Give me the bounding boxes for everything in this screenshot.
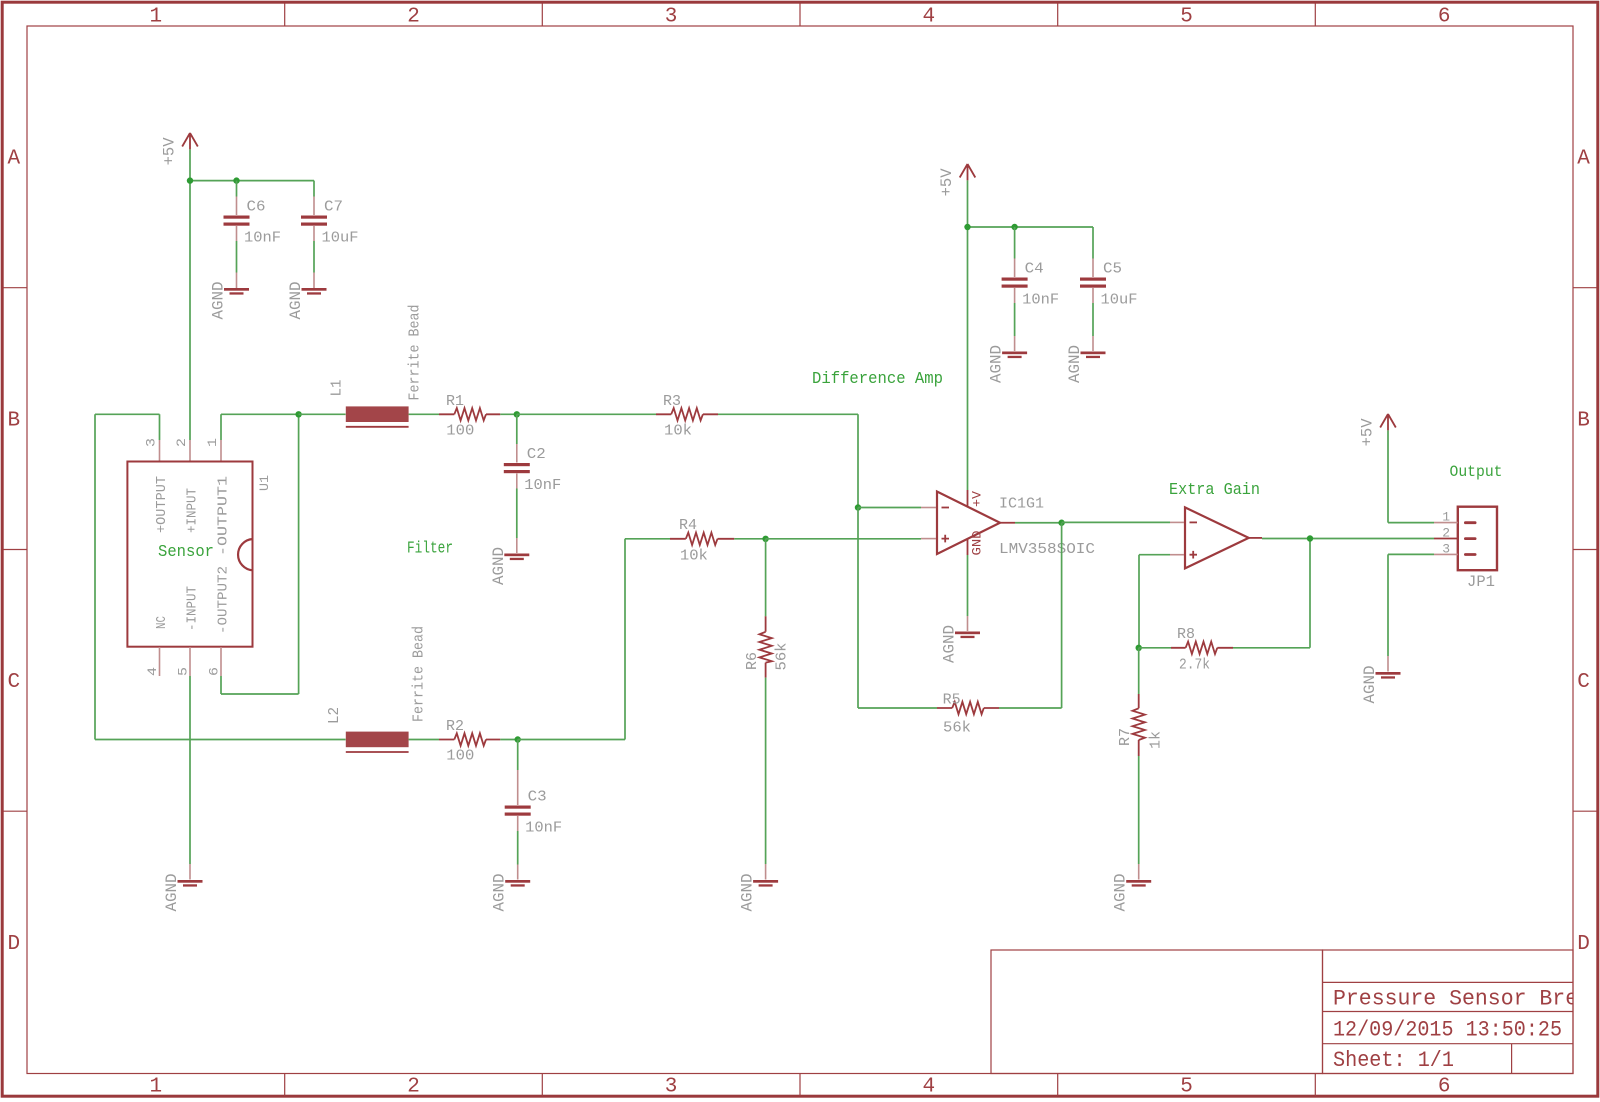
- svg-text:-OUTPUT1: -OUTPUT1: [216, 476, 232, 556]
- wire R3 to diff-amp minus (via corner): [718, 414, 858, 507]
- title block left box: [991, 950, 1323, 1074]
- junction dot gain output/feedback: [1307, 535, 1313, 541]
- svg-text:100: 100: [446, 423, 474, 440]
- svg-text:10uF: 10uF: [322, 230, 359, 247]
- sensor U1 body: [127, 462, 252, 647]
- pin 3 stub (JP1): [1434, 541, 1458, 556]
- svg-text:C2: C2: [527, 446, 546, 463]
- svg-text:+OUTPUT: +OUTPUT: [154, 476, 170, 533]
- svg-text:2: 2: [407, 1076, 420, 1099]
- svg-text:6: 6: [207, 667, 222, 676]
- junction dot top filter node: [295, 411, 301, 417]
- svg-text:LMV358SOIC: LMV358SOIC: [999, 541, 1095, 558]
- wire +5V to op-amp power rail: [968, 180, 1094, 490]
- svg-text:AGND: AGND: [163, 874, 181, 912]
- wire -OUTPUT1 (pin1) up to top filter row: [221, 414, 299, 440]
- pin 2 stub (+INPUT): [174, 438, 190, 461]
- svg-text:4: 4: [922, 1076, 935, 1099]
- svg-text:R8: R8: [1177, 626, 1195, 643]
- svg-text:3: 3: [144, 438, 159, 447]
- wire L1 to R1: [409, 413, 439, 415]
- frame row labels left A-D: [7, 148, 20, 956]
- wire gain amp output: [1262, 538, 1434, 540]
- supply +5V output: [1359, 414, 1396, 446]
- capacitor C4: [1002, 227, 1044, 351]
- ground AGND (JP1): [1361, 666, 1401, 704]
- junction dot +5V rail at C6: [233, 177, 239, 183]
- svg-text:C3: C3: [528, 789, 547, 806]
- wire node to L1: [299, 413, 346, 415]
- svg-text:R1: R1: [446, 393, 464, 410]
- wire R4 to plus node: [734, 538, 765, 540]
- svg-text:C: C: [7, 671, 20, 694]
- wire L2 to R2: [409, 739, 439, 741]
- wire R7 to ground: [1138, 756, 1140, 880]
- svg-text:+INPUT: +INPUT: [185, 488, 201, 533]
- svg-text:D: D: [7, 933, 20, 956]
- wire JP1 pin3 to ground: [1388, 554, 1434, 671]
- junction dot +5V rail at x190: [187, 177, 193, 183]
- ground AGND (R7): [1112, 874, 1152, 912]
- svg-text:R5: R5: [943, 691, 961, 708]
- svg-text:R6: R6: [744, 652, 761, 670]
- svg-text:1: 1: [205, 438, 220, 447]
- svg-text:Sensor: Sensor: [158, 543, 214, 562]
- junction dot minus input tap: [855, 504, 861, 510]
- svg-text:AGND: AGND: [491, 874, 509, 912]
- capacitor C2: [504, 414, 546, 553]
- ground AGND (C2): [490, 547, 530, 585]
- svg-text:5: 5: [1180, 6, 1193, 29]
- svg-text:10nF: 10nF: [525, 820, 562, 837]
- svg-text:R3: R3: [663, 393, 681, 410]
- wire op-amp GND pin to ground: [967, 555, 969, 616]
- svg-text:U1: U1: [257, 475, 272, 491]
- svg-text:4: 4: [145, 667, 160, 676]
- svg-text:D: D: [1577, 933, 1590, 956]
- wire R6 to ground: [765, 678, 767, 880]
- svg-text:C4: C4: [1025, 261, 1044, 278]
- frame row ticks right: [1573, 288, 1597, 812]
- capacitor C5: [1080, 227, 1122, 351]
- ground AGND (sensor pin5): [163, 874, 203, 912]
- svg-text:B: B: [1577, 409, 1590, 432]
- resistor R4: [670, 517, 734, 545]
- frame column ticks bottom: [285, 1074, 1316, 1097]
- junction dot R2/C3 node: [515, 736, 521, 742]
- svg-text:B: B: [7, 409, 20, 432]
- svg-text:12/09/2015 13:50:25: 12/09/2015 13:50:25: [1333, 1018, 1562, 1043]
- wire node to R4 riser: [518, 539, 670, 740]
- svg-text:A: A: [7, 148, 20, 171]
- svg-text:Ferrite Bead: Ferrite Bead: [407, 305, 424, 401]
- wire node to R3: [517, 413, 656, 415]
- svg-text:AGND: AGND: [739, 874, 757, 912]
- svg-text:Output: Output: [1450, 463, 1503, 481]
- title block sheet text: [1333, 1048, 1454, 1073]
- title block date text: [1333, 1018, 1562, 1043]
- pin 5 stub (-INPUT): [176, 647, 191, 676]
- svg-text:Ferrite Bead: Ferrite Bead: [411, 626, 428, 722]
- junction dot diff-amp output: [1058, 520, 1064, 526]
- wire +OUTPUT (pin3) left route to lower filter row: [95, 414, 346, 739]
- svg-text:C: C: [1577, 671, 1590, 694]
- svg-text:2: 2: [1442, 526, 1450, 541]
- svg-text:100: 100: [446, 748, 474, 765]
- resistor R8: [1171, 626, 1233, 654]
- pin 4 stub (NC): [145, 647, 160, 676]
- svg-text:A: A: [1577, 148, 1590, 171]
- svg-text:6: 6: [1438, 1076, 1451, 1099]
- svg-text:+5V: +5V: [938, 168, 956, 197]
- svg-text:R2: R2: [446, 718, 464, 735]
- wire node to R8: [1139, 647, 1171, 649]
- wire R1 to node: [500, 413, 517, 415]
- wire plus node to op-amp: [766, 538, 921, 540]
- ground AGND (C7): [287, 282, 327, 320]
- ferrite bead L2: [326, 707, 409, 752]
- resistor R6 (vertical): [744, 539, 772, 678]
- frame row labels right A-D: [1577, 148, 1590, 956]
- svg-text:5: 5: [1180, 1076, 1193, 1099]
- svg-text:2: 2: [407, 6, 420, 29]
- capacitor C7: [301, 181, 343, 288]
- pin 1 stub (JP1): [1434, 510, 1458, 525]
- title block title text: [1333, 987, 1591, 1012]
- frame column labels bottom 1-6: [149, 1076, 1450, 1099]
- svg-text:AGND: AGND: [988, 345, 1006, 383]
- resistor R7 (vertical): [1117, 648, 1145, 756]
- wire sensor pin5 to ground: [189, 676, 191, 880]
- wire +5V rail to sensor pin 2: [190, 149, 314, 440]
- ground AGND (op-amp): [941, 616, 981, 663]
- pin 6 stub (-OUTPUT2): [207, 647, 222, 676]
- junction dot R1/C2/R3 node: [514, 411, 520, 417]
- svg-text:-OUTPUT2: -OUTPUT2: [216, 566, 232, 634]
- svg-text:1k: 1k: [1148, 731, 1165, 749]
- svg-text:1: 1: [149, 1076, 162, 1099]
- svg-text:Filter: Filter: [407, 540, 453, 559]
- capacitor C6: [224, 181, 266, 288]
- svg-text:Sheet: 1/1: Sheet: 1/1: [1333, 1048, 1454, 1073]
- svg-text:-INPUT: -INPUT: [185, 586, 201, 631]
- wire output node to gain amp minus: [1062, 521, 1170, 523]
- svg-text:3: 3: [665, 6, 678, 29]
- svg-text:C5: C5: [1103, 261, 1122, 278]
- svg-text:4: 4: [922, 6, 935, 29]
- supply +5V op-amp: [938, 164, 975, 196]
- svg-text:10nF: 10nF: [524, 477, 561, 494]
- wire R8 to feedback node: [1233, 539, 1310, 648]
- svg-text:C6: C6: [247, 199, 266, 216]
- ground AGND (C3): [491, 874, 531, 912]
- junction dot R4/R6 node: [762, 536, 768, 542]
- ground AGND (C5): [1066, 345, 1106, 383]
- op-amp IC1 gate B (extra gain): [1170, 507, 1262, 568]
- frame column ticks top: [285, 4, 1316, 27]
- connector JP1: [1458, 507, 1497, 571]
- svg-text:R7: R7: [1117, 728, 1134, 746]
- svg-text:+5V: +5V: [161, 137, 179, 166]
- wire diff-amp output to node: [1015, 522, 1062, 524]
- svg-text:L2: L2: [326, 707, 343, 724]
- pin 2 stub (JP1): [1434, 526, 1458, 541]
- ferrite bead L1: [329, 380, 409, 427]
- wire -OUTPUT2 (pin6) to top filter row riser: [221, 414, 299, 694]
- svg-text:56k: 56k: [774, 643, 791, 671]
- svg-text:10nF: 10nF: [244, 230, 281, 247]
- svg-text:L1: L1: [329, 380, 346, 397]
- svg-text:3: 3: [665, 1076, 678, 1099]
- junction dot +5V rail at C4: [1011, 224, 1017, 230]
- junction dot R7/R8 node: [1136, 645, 1142, 651]
- svg-text:1: 1: [149, 6, 162, 29]
- op-amp U IC1G1 (difference amp): [921, 490, 1015, 555]
- supply +5V sensor: [161, 133, 198, 165]
- svg-text:AGND: AGND: [1112, 874, 1130, 912]
- svg-text:AGND: AGND: [941, 625, 959, 663]
- resistor R5: [937, 691, 999, 714]
- svg-text:AGND: AGND: [1361, 666, 1379, 704]
- svg-text:+V: +V: [971, 490, 985, 507]
- svg-text:10k: 10k: [680, 547, 708, 564]
- svg-text:IC1G1: IC1G1: [999, 496, 1044, 513]
- wire gain amp plus input route: [1139, 555, 1170, 648]
- svg-text:2: 2: [174, 438, 189, 447]
- svg-text:1: 1: [1442, 510, 1450, 525]
- junction dot +5V rail at x967: [964, 224, 970, 230]
- title block right box rows: [1323, 950, 1574, 1074]
- wire output node down to R5: [999, 523, 1062, 708]
- resistor R3: [656, 393, 718, 421]
- svg-text:AGND: AGND: [210, 282, 228, 320]
- frame row ticks left: [4, 288, 28, 812]
- svg-text:3: 3: [1442, 541, 1450, 556]
- svg-text:NC: NC: [154, 616, 170, 629]
- svg-text:AGND: AGND: [287, 282, 305, 320]
- capacitor C3: [505, 740, 547, 880]
- svg-text:Pressure Sensor Brea: Pressure Sensor Brea: [1333, 987, 1591, 1012]
- svg-text:AGND: AGND: [1066, 345, 1084, 383]
- svg-text:2.7k: 2.7k: [1179, 656, 1210, 673]
- svg-text:10nF: 10nF: [1022, 292, 1059, 309]
- svg-text:Extra Gain: Extra Gain: [1169, 481, 1260, 500]
- ground AGND (C4): [988, 345, 1028, 383]
- ground AGND (R6): [739, 874, 779, 912]
- svg-text:AGND: AGND: [490, 547, 508, 585]
- svg-text:56k: 56k: [943, 720, 971, 737]
- svg-text:GND: GND: [971, 531, 985, 556]
- wire minus tap down to R5 row: [858, 508, 937, 709]
- svg-text:6: 6: [1438, 6, 1451, 29]
- svg-text:JP1: JP1: [1467, 573, 1495, 591]
- wire minus tap to op-amp: [858, 507, 921, 509]
- svg-text:R4: R4: [679, 517, 697, 534]
- svg-text:5: 5: [176, 667, 191, 676]
- pin 1 stub (-OUTPUT1): [205, 438, 221, 461]
- ground AGND (C6): [210, 282, 250, 320]
- svg-text:10uF: 10uF: [1101, 292, 1138, 309]
- resistor R2: [439, 718, 500, 746]
- svg-text:10k: 10k: [664, 423, 692, 440]
- resistor R1: [439, 393, 500, 421]
- svg-text:+5V: +5V: [1359, 418, 1377, 447]
- pin 3 stub (+OUTPUT): [144, 438, 160, 461]
- frame column labels top 1-6: [149, 6, 1450, 29]
- wire R2 to node: [500, 739, 517, 741]
- svg-text:C7: C7: [324, 199, 343, 216]
- svg-text:Difference Amp: Difference Amp: [812, 370, 943, 389]
- wire +5V to JP1 pin1: [1388, 430, 1434, 522]
